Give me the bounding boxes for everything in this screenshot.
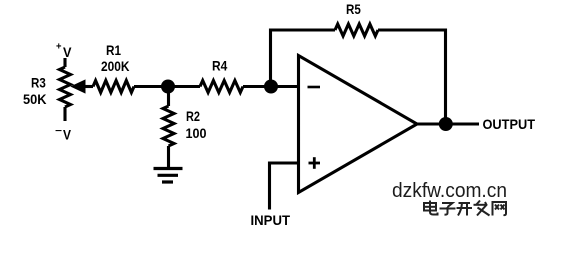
- wire R4 to node B and op-amp inverting input: [243, 85, 299, 88]
- char fa: [474, 201, 490, 216]
- wire R5 to output node: [378, 30, 446, 124]
- svg-text:R2: R2: [186, 108, 200, 124]
- svg-text:+: +: [56, 42, 62, 53]
- char kai: [457, 203, 473, 216]
- svg-text:INPUT: INPUT: [251, 212, 291, 228]
- node B junction dot: [264, 80, 278, 94]
- char dian: [424, 201, 438, 215]
- svg-text:dzkfw.com.cn: dzkfw.com.cn: [392, 180, 507, 202]
- resistor R2: [163, 106, 174, 146]
- wire R2 to ground: [167, 146, 170, 168]
- svg-text:200K: 200K: [101, 58, 130, 74]
- wire feedback: node B up and across: [271, 30, 336, 87]
- svg-text:50K: 50K: [23, 91, 47, 107]
- node A junction dot: [161, 80, 175, 94]
- resistor R5: [335, 24, 378, 36]
- potentiometer R3: [63, 58, 66, 67]
- svg-text:V: V: [63, 44, 72, 60]
- wiper arrow of R3: [72, 80, 86, 93]
- svg-text:100: 100: [186, 125, 207, 141]
- wire node A down to R2: [167, 87, 170, 107]
- watermark chinese characters drawn as strokes: [424, 201, 506, 216]
- op-amp U1: [299, 56, 418, 193]
- svg-text:R4: R4: [212, 58, 227, 74]
- svg-text:V: V: [63, 127, 72, 143]
- wire wiper to R1: [84, 85, 93, 88]
- wire R1 to node A: [134, 85, 168, 88]
- wire op-amp output: [417, 122, 479, 125]
- wire node A to R4: [168, 85, 200, 88]
- output node junction dot: [439, 117, 453, 131]
- resistor R1: [93, 81, 134, 93]
- svg-text:−: −: [55, 126, 62, 137]
- svg-text:R3: R3: [31, 75, 46, 91]
- svg-text:R5: R5: [346, 1, 361, 17]
- wire non-inverting input: [270, 163, 299, 210]
- char wang: [493, 202, 507, 216]
- plus sign non-inverting input: [309, 157, 321, 169]
- minus sign inverting input: [308, 86, 321, 89]
- svg-text:R1: R1: [106, 42, 121, 58]
- ground: [154, 169, 183, 183]
- char zi: [440, 203, 456, 215]
- resistor R4: [200, 81, 243, 93]
- svg-text:OUTPUT: OUTPUT: [483, 116, 536, 132]
